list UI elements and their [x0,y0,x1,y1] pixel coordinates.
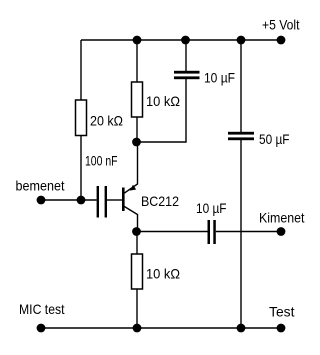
capacitor C4 50 uF (plates) [228,132,254,140]
wire: C1 to base of Q1 [107,199,122,201]
svg-text:Kimenet: Kimenet [259,210,305,226]
node: +5 Volt terminal dot [277,36,286,45]
node: bottom junction at C4 [237,324,246,333]
node: rail junction at C2 [181,36,190,45]
transistor Q1 emitter arrow (PNP, points to base) [130,185,136,191]
node: rail junction at C4 [237,36,246,45]
wire: rail to R2 top [136,40,138,82]
capacitor C2 10 uF (plates) [174,71,200,79]
wire: rail to C4 branch [240,40,242,132]
wire: R3 bottom to ground rail [136,289,138,328]
node: MIC test terminal dot [37,324,46,333]
wire: emitter node right to C2 bottom [137,79,187,142]
svg-text:50 µF: 50 µF [259,131,290,147]
capacitor C3 10 uF (plates) [208,220,216,244]
capacitor C1 100 nF (plates) [97,186,107,218]
wire: bemenet terminal to C1 [41,199,97,201]
svg-text:BC212: BC212 [141,193,179,209]
wire: +5V top rail [81,39,281,41]
resistor R1 20 kOhm [76,100,87,136]
node: bemenet terminal dot [37,196,46,205]
wire: R1 bottom to input node [80,136,82,201]
wire: C2 top to rail [185,40,187,71]
node: Kimenet terminal dot [277,227,286,236]
svg-text:20 kΩ: 20 kΩ [90,113,123,129]
resistor R3 10 kOhm [132,254,143,289]
transistor Q1 BC212 emitter lead [125,142,138,193]
wire: collector node to C3 [137,231,208,233]
node: bottom junction at R3 [133,324,142,333]
transistor Q1 collector lead [124,206,138,232]
resistor R2 10 kOhm [132,82,143,117]
svg-text:100 nF: 100 nF [85,153,118,169]
svg-text:+5 Volt: +5 Volt [262,17,300,33]
svg-text:MIC test: MIC test [19,301,65,317]
node: rail junction at R2 [133,36,142,45]
node: input junction dot [77,196,86,205]
svg-text:bemenet: bemenet [16,178,65,194]
node: emitter junction dot [132,138,141,147]
wire: collector node down to R3 [136,232,138,255]
svg-text:Test: Test [269,304,295,320]
wire: bottom rail (MIC test to Test) [41,327,281,329]
transistor Q1 base bar [122,188,125,212]
node: Test terminal dot [277,324,286,333]
wire: C4 bottom to ground rail [240,140,242,328]
wire: left branch from rail down to R1 [80,40,82,100]
node: collector junction dot [132,227,141,236]
svg-text:10 kΩ: 10 kΩ [146,93,180,109]
wire: C3 to Kimenet terminal [216,231,281,233]
svg-text:10 µF: 10 µF [204,70,235,86]
wire: R2 bottom to emitter node [136,117,138,142]
svg-text:10 kΩ: 10 kΩ [146,266,180,282]
svg-text:10 µF: 10 µF [196,200,227,216]
